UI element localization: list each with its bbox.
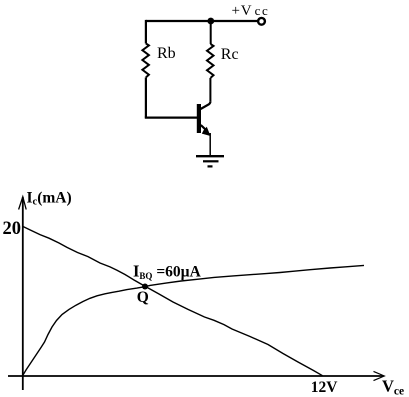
wire emitter to ground [209, 133, 211, 156]
svg-text:Rc: Rc [221, 46, 239, 63]
terminal +Vcc open circle [258, 18, 265, 25]
transistor Q1 collector lead [201, 102, 211, 109]
svg-text:Ic(mA): Ic(mA) [27, 190, 72, 208]
svg-text:Rb: Rb [157, 45, 176, 62]
wire collector branch lower [209, 78, 211, 102]
svg-text:Vce: Vce [382, 377, 404, 397]
node junction dot at collector rail [207, 18, 214, 25]
svg-text:+Vcc: +Vcc [232, 3, 269, 19]
y axis Ic [22, 197, 24, 390]
node Q operating point dot [142, 284, 148, 290]
wire collector branch upper [210, 21, 212, 44]
load line [23, 227, 323, 376]
resistor Rc [207, 44, 214, 78]
ground [196, 156, 224, 166]
transistor Q1 base bar [197, 104, 201, 133]
wire left branch upper [145, 20, 147, 44]
svg-text:20: 20 [3, 219, 22, 239]
svg-text:Q: Q [137, 289, 149, 306]
characteristic curve IB=60uA [23, 265, 364, 374]
svg-text:12V: 12V [311, 379, 339, 396]
wire top rail Vcc [146, 20, 258, 22]
wire left branch lower [145, 77, 147, 117]
transistor Q1 emitter lead with arrow [201, 125, 206, 130]
wire base [145, 116, 198, 118]
resistor Rb [142, 44, 149, 78]
svg-text:IBQ =60µA: IBQ =60µA [133, 262, 202, 282]
x axis Vce [8, 375, 383, 377]
